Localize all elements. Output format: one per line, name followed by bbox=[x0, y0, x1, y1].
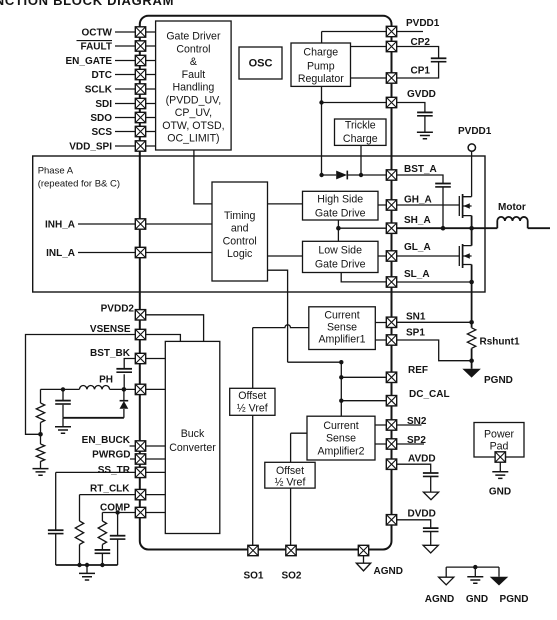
svg-text:DVDD: DVDD bbox=[408, 509, 436, 520]
svg-text:SH_A: SH_A bbox=[404, 215, 431, 226]
svg-text:Pad: Pad bbox=[490, 441, 509, 453]
svg-text:PVDD2: PVDD2 bbox=[101, 304, 135, 315]
svg-text:Motor: Motor bbox=[498, 202, 526, 213]
svg-text:CP2: CP2 bbox=[411, 37, 431, 48]
svg-text:Gate Driver: Gate Driver bbox=[166, 31, 221, 43]
svg-text:COMP: COMP bbox=[100, 502, 130, 513]
svg-text:Current: Current bbox=[323, 420, 358, 432]
svg-text:SCS: SCS bbox=[91, 127, 112, 138]
svg-text:½ Vref: ½ Vref bbox=[275, 477, 306, 489]
svg-text:Rshunt1: Rshunt1 bbox=[480, 337, 520, 348]
svg-text:AVDD: AVDD bbox=[408, 454, 436, 465]
svg-text:Amplifier2: Amplifier2 bbox=[317, 446, 364, 458]
svg-text:Timing: Timing bbox=[224, 210, 256, 222]
svg-text:Low Side: Low Side bbox=[318, 245, 362, 257]
svg-text:Power: Power bbox=[484, 429, 514, 441]
svg-text:Converter: Converter bbox=[169, 442, 216, 454]
svg-text:(repeated for B& C): (repeated for B& C) bbox=[38, 179, 120, 190]
svg-text:OC_LIMIT): OC_LIMIT) bbox=[167, 133, 219, 145]
svg-text:SO1: SO1 bbox=[243, 571, 263, 582]
svg-text:SP2: SP2 bbox=[407, 435, 426, 446]
svg-text:OSC: OSC bbox=[249, 58, 273, 70]
svg-text:RT_CLK: RT_CLK bbox=[90, 483, 130, 494]
svg-text:Charge: Charge bbox=[343, 133, 378, 145]
svg-text:High Side: High Side bbox=[317, 194, 363, 206]
svg-text:PVDD1: PVDD1 bbox=[458, 126, 492, 137]
svg-text:Regulator: Regulator bbox=[298, 73, 344, 85]
svg-text:EN_GATE: EN_GATE bbox=[66, 56, 113, 67]
svg-text:GVDD: GVDD bbox=[407, 89, 436, 100]
svg-text:AGND: AGND bbox=[374, 566, 403, 577]
svg-text:GH_A: GH_A bbox=[404, 195, 432, 206]
svg-text:Sense: Sense bbox=[327, 322, 357, 334]
svg-text:OTW, OTSD,: OTW, OTSD, bbox=[162, 120, 224, 132]
svg-text:CP1: CP1 bbox=[411, 66, 431, 77]
svg-text:Control: Control bbox=[176, 43, 210, 55]
svg-text:PGND: PGND bbox=[484, 375, 513, 386]
svg-text:PH: PH bbox=[99, 375, 113, 386]
svg-text:and: and bbox=[231, 223, 249, 235]
svg-text:Gate Drive: Gate Drive bbox=[315, 208, 366, 220]
svg-text:Phase A: Phase A bbox=[38, 166, 74, 177]
svg-text:SDI: SDI bbox=[95, 99, 112, 110]
svg-text:INL_A: INL_A bbox=[46, 248, 75, 259]
svg-text:SN1: SN1 bbox=[406, 312, 426, 323]
svg-text:GND: GND bbox=[466, 594, 488, 605]
svg-text:AGND: AGND bbox=[425, 594, 454, 605]
svg-text:SL_A: SL_A bbox=[404, 269, 430, 280]
svg-text:Pump: Pump bbox=[307, 60, 335, 72]
svg-text:(PVDD_UV,: (PVDD_UV, bbox=[166, 94, 222, 106]
svg-text:OCTW: OCTW bbox=[81, 27, 112, 38]
svg-text:Trickle: Trickle bbox=[345, 120, 376, 132]
svg-text:PGND: PGND bbox=[500, 594, 529, 605]
svg-text:Current: Current bbox=[324, 310, 359, 322]
svg-text:BST_BK: BST_BK bbox=[90, 348, 131, 359]
svg-text:SDO: SDO bbox=[90, 113, 112, 124]
svg-text:Gate Drive: Gate Drive bbox=[315, 259, 366, 271]
svg-text:VDD_SPI: VDD_SPI bbox=[69, 141, 112, 152]
svg-text:Control: Control bbox=[223, 235, 257, 247]
svg-text:GND: GND bbox=[489, 487, 511, 498]
svg-text:Charge: Charge bbox=[303, 47, 338, 59]
svg-text:INH_A: INH_A bbox=[45, 219, 75, 230]
svg-text:Handling: Handling bbox=[172, 82, 214, 94]
svg-text:FUNCTION BLOCK DIAGRAM: FUNCTION BLOCK DIAGRAM bbox=[0, 0, 174, 8]
svg-text:REF: REF bbox=[408, 365, 428, 376]
svg-text:PWRGD: PWRGD bbox=[92, 449, 130, 460]
svg-text:½ Vref: ½ Vref bbox=[237, 403, 268, 415]
svg-text:BST_A: BST_A bbox=[404, 164, 437, 175]
svg-text:DC_CAL: DC_CAL bbox=[409, 389, 450, 400]
svg-text:VSENSE: VSENSE bbox=[90, 324, 131, 335]
svg-text:Offset: Offset bbox=[276, 465, 304, 477]
svg-text:SCLK: SCLK bbox=[85, 84, 113, 95]
svg-text:Logic: Logic bbox=[227, 248, 253, 260]
svg-text:Offset: Offset bbox=[238, 390, 266, 402]
svg-text:Buck: Buck bbox=[181, 428, 205, 440]
svg-text:Sense: Sense bbox=[326, 433, 356, 445]
svg-text:SO2: SO2 bbox=[281, 571, 301, 582]
svg-text:SS_TR: SS_TR bbox=[98, 465, 131, 476]
svg-text:CP_UV,: CP_UV, bbox=[175, 107, 212, 119]
svg-text:GL_A: GL_A bbox=[404, 242, 431, 253]
svg-text:FAULT: FAULT bbox=[81, 41, 112, 52]
svg-text:Fault: Fault bbox=[182, 69, 206, 81]
svg-text:SP1: SP1 bbox=[406, 327, 425, 338]
svg-text:EN_BUCK: EN_BUCK bbox=[82, 435, 131, 446]
svg-text:SN2: SN2 bbox=[407, 416, 427, 427]
svg-text:PVDD1: PVDD1 bbox=[406, 18, 440, 29]
svg-text:DTC: DTC bbox=[91, 70, 112, 81]
svg-text:Amplifier1: Amplifier1 bbox=[318, 334, 365, 346]
svg-text:&: & bbox=[190, 56, 197, 68]
